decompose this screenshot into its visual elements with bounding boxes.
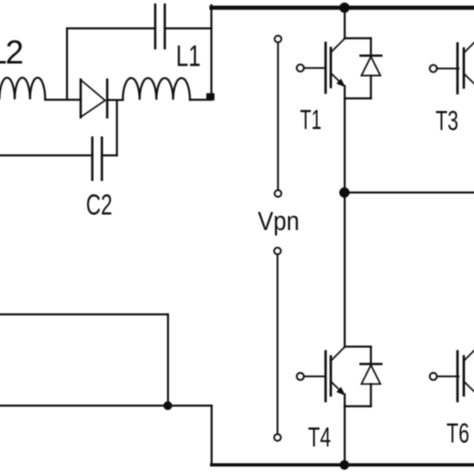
diode antiparallel of T4: bottom lead [370,384,372,406]
transistor T4 body bar [330,356,332,395]
node bottom bus junction at T4 emitter [340,460,350,470]
transistor T6 (IGBT, cut at right edge) gate terminal circle [430,373,437,380]
wire diode cathode to L1 [107,99,123,101]
wire Vpn probe line [277,42,279,190]
svg-text:T4: T4 [308,422,331,453]
wire C2 right lead [102,154,117,156]
wire vertical from capacitor left lead down to diode input [66,28,68,99]
probe Vpn top terminal [275,36,282,43]
transistor T1 body bar [330,48,332,87]
probe Vpn bottom terminal [275,190,282,197]
transistor T6 gate bar [456,351,458,401]
wire T1 diode anode to emitter [345,97,371,99]
transistor T4 gate lead [304,375,326,377]
inductor L2 coil [0,78,45,100]
transistor T3 emitter diagonal (clipped) [465,74,474,83]
wire midpoint to right edge [344,192,474,194]
wire T4 collector lead from midpoint [344,193,346,347]
transistor T4 gate bar [324,351,326,401]
wire left lead of top capacitor [67,27,155,29]
wire vertical down to C2 right lead [116,100,118,155]
diode antiparallel of T4: triangle [361,365,380,384]
transistor T6 body bar [463,356,465,395]
svg-text:T1: T1 [300,105,322,136]
wire right lead of top capacitor [165,27,212,29]
node junction of left feeds [163,401,172,410]
diode D1 cathode bar [106,80,108,118]
transistor T1 collector diagonal [332,39,345,52]
wire T4 diode anode to emitter [345,405,371,407]
transistor T3 body bar [463,49,465,88]
transistor T6 emitter diagonal (clipped) [465,382,474,391]
diode antiparallel of T1: bottom lead [370,76,372,99]
wire T1 emitter down to midpoint node [344,86,346,193]
wire T1 collector node to diode [345,37,371,39]
diode D1 anode bar / triangle [80,80,82,118]
wire T4 collector node to diode [345,346,371,348]
transistor T3 (IGBT, cut at right edge) gate terminal circle [430,65,437,72]
diode antiparallel of T4: cathode bar [361,363,382,365]
capacitor C2 plates [91,138,93,180]
probe lower measurement bottom terminal [274,434,281,441]
wire L1 to vertical node [190,99,212,101]
wire lower probe line [277,254,279,434]
wire C2 left lead to edge [0,154,92,156]
wire vertical down to bottom bus [211,406,213,465]
transistor T3 gate bar [456,43,458,93]
wire top bus (P rail) [212,6,474,10]
wire bottom bus (N rail) [212,463,474,466]
transistor T3 collector diagonal (clipped) [465,39,474,52]
diode antiparallel of T4: top lead [370,347,372,364]
wire vertical from bus down to L1 output node [210,5,212,97]
inductor L1 coil [123,78,190,100]
capacitor C1 plates [154,5,156,49]
probe lower measurement top terminal [274,248,281,255]
transistor T1 emitter diagonal with arrow [332,74,343,85]
transistor T6 collector diagonal (clipped) [465,347,474,360]
svg-text:C2: C2 [86,189,112,221]
diode antiparallel of T1: top lead [370,38,372,55]
transistor T1 gate lead [304,67,326,69]
svg-text:L2: L2 [0,34,22,71]
svg-text:T6: T6 [447,418,470,449]
transistor T4 collector diagonal [332,347,345,360]
transistor T1 (IGBT) collector lead [344,8,346,39]
svg-text:Vpn: Vpn [258,208,300,236]
node midpoint junction dot [339,187,349,197]
svg-text:L1: L1 [176,39,201,73]
transistor T3 gate lead [437,68,459,70]
transistor T1 gate bar [324,43,326,93]
transistor T4 gate terminal circle [297,373,304,380]
wire T4 emitter down to bottom bus [344,394,346,465]
wire left feed lower [0,405,212,407]
node bus junction at T1 collector [339,3,349,13]
wire L2 to diode anode [45,99,80,101]
transistor T1 gate terminal circle [297,64,304,71]
transistor T4 emitter diagonal with arrow [332,382,343,393]
diode antiparallel of T1: cathode bar [361,54,382,56]
node square junction at L1 / bus vertical [206,93,214,100]
wire left feed upper (to load) [0,313,168,315]
svg-text:T3: T3 [436,106,459,137]
diode antiparallel of T1: triangle [361,57,380,76]
transistor T6 gate lead [437,375,459,377]
wire vertical joining the two left feeds [167,314,169,405]
